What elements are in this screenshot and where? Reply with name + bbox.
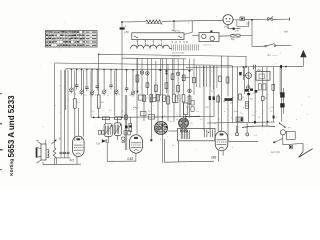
svg-text:50: 50 xyxy=(148,111,151,113)
svg-text:0,1: 0,1 xyxy=(270,107,274,109)
svg-text:µ: µ xyxy=(243,107,245,109)
svg-text:70: 70 xyxy=(240,113,243,115)
svg-text:2M: 2M xyxy=(230,103,233,105)
svg-text:110 125 150: 110 125 150 xyxy=(172,53,185,55)
svg-text:70: 70 xyxy=(129,95,132,97)
svg-text:5: 5 xyxy=(172,41,174,44)
svg-text:n: n xyxy=(231,117,233,119)
svg-text:25: 25 xyxy=(155,117,158,119)
svg-text:0,3: 0,3 xyxy=(77,102,81,104)
svg-text:•: • xyxy=(141,121,142,123)
svg-text:•: • xyxy=(256,111,257,113)
svg-text:8: 8 xyxy=(218,119,220,121)
svg-text:14,2: 14,2 xyxy=(224,25,230,29)
svg-text:2n: 2n xyxy=(252,115,255,117)
svg-text:6,8: 6,8 xyxy=(97,143,101,146)
svg-text:5k: 5k xyxy=(266,94,269,96)
svg-text:0,5: 0,5 xyxy=(254,135,258,137)
svg-text:•: • xyxy=(196,149,197,151)
svg-text:n: n xyxy=(232,147,234,149)
svg-text:50: 50 xyxy=(121,111,124,113)
svg-text:50: 50 xyxy=(84,95,87,97)
svg-text:µ50: µ50 xyxy=(125,30,130,34)
svg-text:µm: µm xyxy=(236,30,239,33)
svg-text:5653 A und 5233: 5653 A und 5233 xyxy=(7,95,16,158)
svg-text:2k: 2k xyxy=(118,94,121,96)
svg-text:50: 50 xyxy=(190,123,193,125)
svg-text:•: • xyxy=(238,127,239,129)
svg-text:50: 50 xyxy=(265,98,268,100)
svg-text:25: 25 xyxy=(258,117,261,119)
svg-text:0,1: 0,1 xyxy=(109,110,113,112)
svg-text:µ4: µ4 xyxy=(288,127,291,129)
svg-text:220 240: 220 240 xyxy=(172,55,181,57)
svg-text:antenne: antenne xyxy=(203,44,212,47)
svg-text:•: • xyxy=(150,89,151,91)
svg-text:2M: 2M xyxy=(101,102,104,104)
svg-text:0: 0 xyxy=(180,41,182,44)
svg-text:seit 6.39: seit 6.39 xyxy=(271,151,280,154)
svg-text:5: 5 xyxy=(183,41,185,44)
svg-text:100: 100 xyxy=(205,107,209,109)
svg-text:n: n xyxy=(296,119,298,121)
svg-text:2x: 2x xyxy=(172,145,175,147)
svg-text:Körting: Körting xyxy=(9,159,15,176)
svg-text:50µ: 50µ xyxy=(231,38,236,41)
svg-text:2n: 2n xyxy=(92,111,95,113)
svg-text:50: 50 xyxy=(186,107,189,109)
svg-text:+: + xyxy=(125,24,127,28)
svg-text:··: ·· xyxy=(288,135,290,138)
svg-text:2n: 2n xyxy=(196,111,199,113)
svg-text:n: n xyxy=(224,111,226,113)
svg-text:1k: 1k xyxy=(214,123,217,125)
svg-text:5: 5 xyxy=(176,41,178,44)
svg-text:70: 70 xyxy=(146,98,149,100)
svg-text:5: 5 xyxy=(186,41,188,44)
svg-text:u83: u83 xyxy=(211,156,217,160)
svg-text:n: n xyxy=(133,109,135,111)
svg-text:•: • xyxy=(170,111,171,113)
svg-text:n: n xyxy=(276,117,278,119)
svg-text:0,2: 0,2 xyxy=(200,119,204,121)
svg-text:•: • xyxy=(141,87,142,89)
svg-text:µ: µ xyxy=(107,95,109,97)
svg-text:FO: FO xyxy=(70,158,75,162)
svg-text:4n: 4n xyxy=(170,121,173,123)
svg-text:5k: 5k xyxy=(242,97,245,99)
svg-text:•: • xyxy=(262,129,263,131)
svg-text:mA: mA xyxy=(284,29,288,33)
svg-text:8: 8 xyxy=(160,139,162,141)
svg-text:•: • xyxy=(192,98,193,100)
svg-text:200: 200 xyxy=(246,24,251,26)
svg-text:2× ——: 2× —— xyxy=(268,53,278,57)
svg-text:n: n xyxy=(220,98,222,100)
svg-text:3x: 3x xyxy=(59,138,62,141)
svg-text:50: 50 xyxy=(270,111,273,113)
svg-text:0,1: 0,1 xyxy=(250,99,254,101)
svg-text:4,82: 4,82 xyxy=(127,157,133,161)
